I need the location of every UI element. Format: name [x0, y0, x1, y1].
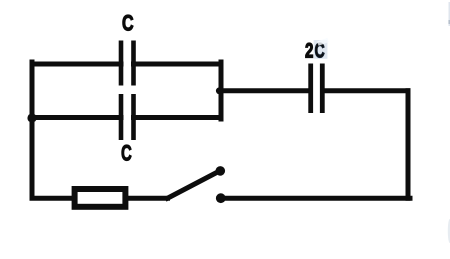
svg-text:C: C — [122, 10, 134, 35]
svg-text:C: C — [121, 141, 132, 166]
svg-text:2: 2 — [305, 39, 313, 62]
